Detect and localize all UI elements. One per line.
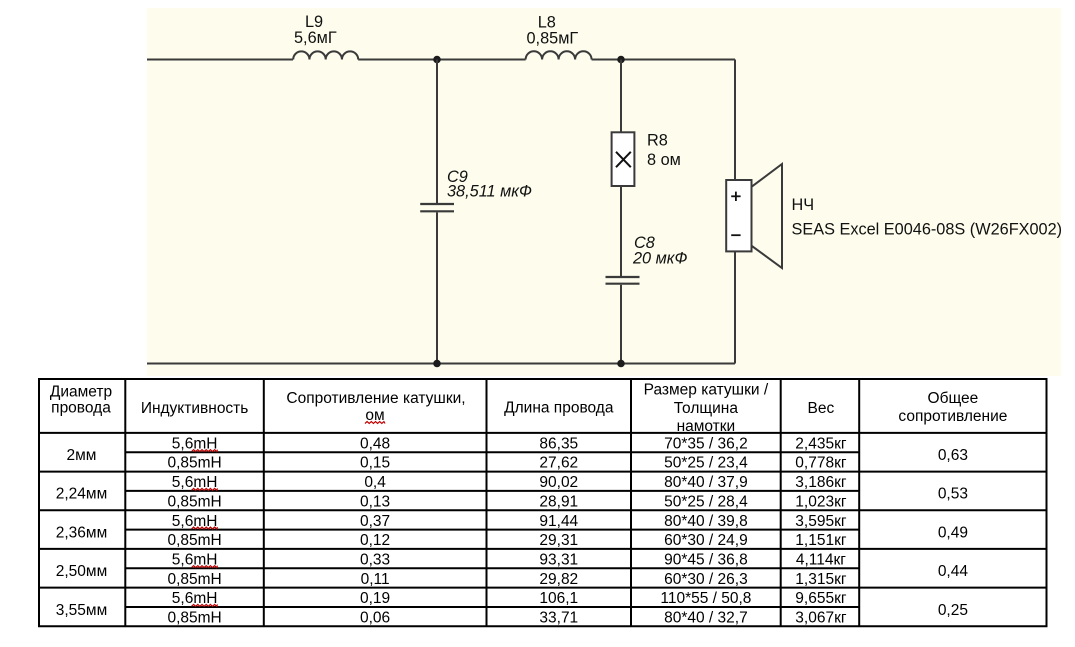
wire: C8 branch lower [620, 285, 622, 364]
svg-text:1,315кг: 1,315кг [795, 571, 847, 588]
svg-text:93,31: 93,31 [539, 551, 578, 568]
svg-text:80*40 / 37,9: 80*40 / 37,9 [664, 474, 748, 491]
svg-text:90,02: 90,02 [539, 474, 578, 491]
svg-text:2,36мм: 2,36мм [56, 524, 107, 541]
svg-text:0,53: 0,53 [938, 486, 968, 503]
svg-text:60*30 / 26,3: 60*30 / 26,3 [664, 571, 748, 588]
wire: C9 branch upper [436, 60, 438, 204]
schematic background sheet [147, 8, 1061, 376]
svg-text:0,85mH: 0,85mH [167, 493, 221, 510]
svg-text:80*40 / 39,8: 80*40 / 39,8 [664, 513, 748, 530]
svg-text:50*25 / 23,4: 50*25 / 23,4 [664, 455, 748, 472]
svg-text:8 ом: 8 ом [647, 151, 681, 169]
svg-text:Толщина: Толщина [674, 400, 739, 417]
svg-text:Длина провода: Длина провода [504, 400, 614, 417]
svg-text:0,48: 0,48 [360, 435, 390, 452]
svg-text:86,35: 86,35 [539, 435, 578, 452]
svg-text:Сопротивление катушки,: Сопротивление катушки, [286, 390, 465, 407]
svg-text:2мм: 2мм [67, 447, 97, 464]
table grid [38, 379, 40, 626]
node: junction top of C9 [433, 56, 441, 64]
svg-text:0,4: 0,4 [364, 474, 386, 491]
wire: bottom return [147, 363, 735, 365]
wire: top between L8 and speaker branch [592, 59, 735, 61]
svg-text:Вес: Вес [808, 400, 835, 417]
svg-text:50*25 / 28,4: 50*25 / 28,4 [664, 493, 748, 510]
svg-text:R8: R8 [647, 131, 668, 149]
svg-text:3,067кг: 3,067кг [795, 610, 847, 627]
svg-text:27,62: 27,62 [539, 455, 578, 472]
svg-text:провода: провода [51, 399, 111, 416]
svg-text:80*40 / 32,7: 80*40 / 32,7 [664, 610, 748, 627]
capacitor C8 [606, 276, 640, 278]
wire: top input segment [147, 59, 293, 61]
svg-text:0,25: 0,25 [938, 602, 968, 619]
capacitor C9 [420, 203, 454, 205]
svg-text:НЧ: НЧ [792, 196, 815, 214]
wire: C9 branch lower [436, 212, 438, 363]
svg-text:0,63: 0,63 [938, 447, 968, 464]
svg-text:0,12: 0,12 [360, 532, 390, 549]
svg-text:4,114кг: 4,114кг [796, 551, 846, 568]
svg-text:106,1: 106,1 [539, 590, 578, 607]
svg-text:Общее: Общее [928, 390, 979, 407]
svg-text:91,44: 91,44 [539, 513, 578, 530]
wire: speaker branch upper [734, 60, 736, 181]
inductor L8 [526, 51, 592, 59]
svg-text:0,13: 0,13 [360, 493, 390, 510]
svg-text:60*30 / 24,9: 60*30 / 24,9 [664, 532, 748, 549]
svg-text:0,49: 0,49 [938, 524, 968, 541]
svg-text:0,11: 0,11 [361, 571, 390, 588]
svg-text:29,31: 29,31 [539, 532, 578, 549]
svg-text:70*35 / 36,2: 70*35 / 36,2 [664, 435, 748, 452]
svg-text:1,151кг: 1,151кг [795, 532, 847, 549]
svg-text:28,91: 28,91 [539, 493, 578, 510]
svg-text:0,85mH: 0,85mH [167, 571, 221, 588]
wire: R8 branch upper [620, 60, 622, 133]
svg-text:намотки: намотки [677, 418, 736, 435]
wire: speaker branch lower [734, 251, 736, 363]
svg-text:0,85mH: 0,85mH [167, 455, 221, 472]
svg-text:0,33: 0,33 [360, 551, 390, 568]
svg-text:110*55 / 50,8: 110*55 / 50,8 [660, 590, 751, 607]
svg-text:Индуктивность: Индуктивность [141, 400, 249, 417]
svg-text:29,82: 29,82 [539, 571, 578, 588]
wire: top between L9 and L8 [358, 59, 525, 61]
svg-text:0,778кг: 0,778кг [795, 455, 847, 472]
svg-text:сопротивление: сопротивление [898, 408, 1007, 425]
svg-text:0,19: 0,19 [360, 590, 390, 607]
svg-text:5,6мГ: 5,6мГ [294, 29, 337, 47]
svg-text:0,37: 0,37 [360, 513, 390, 530]
svg-text:0,15: 0,15 [360, 455, 390, 472]
svg-text:2,24мм: 2,24мм [56, 486, 107, 503]
resistor R8 (fuse body with X) [612, 132, 635, 186]
svg-text:0,85мГ: 0,85мГ [527, 30, 579, 48]
svg-text:0,85mH: 0,85mH [167, 610, 221, 627]
node: junction bottom of C8 [617, 360, 625, 368]
svg-text:2,50мм: 2,50мм [56, 563, 107, 580]
svg-text:Диаметр: Диаметр [50, 383, 112, 400]
svg-text:0,06: 0,06 [360, 610, 390, 627]
svg-text:90*45 / 36,8: 90*45 / 36,8 [664, 551, 748, 568]
svg-text:0,85mH: 0,85mH [167, 532, 221, 549]
svg-text:20 мкФ: 20 мкФ [632, 250, 687, 268]
svg-text:SEAS Excel E0046-08S (W26FX002: SEAS Excel E0046-08S (W26FX002) [792, 221, 1063, 239]
svg-text:3,595кг: 3,595кг [795, 513, 847, 530]
svg-text:33,71: 33,71 [539, 610, 578, 627]
node: junction bottom of C9 [433, 360, 441, 368]
speaker horn cone [752, 164, 783, 268]
inductor L9 [293, 51, 358, 59]
svg-text:2,435кг: 2,435кг [795, 435, 847, 452]
node: junction top of R8 [617, 56, 625, 64]
speaker driver (magnet box with polarity) [726, 180, 751, 251]
svg-text:0,44: 0,44 [938, 563, 969, 580]
svg-text:9,655кг: 9,655кг [795, 590, 847, 607]
svg-text:3,186кг: 3,186кг [795, 474, 847, 491]
svg-text:38,511 мкФ: 38,511 мкФ [447, 182, 532, 200]
wire: between R8 and C8 [620, 186, 622, 276]
svg-text:3,55мм: 3,55мм [56, 602, 107, 619]
svg-text:Размер катушки /: Размер катушки / [644, 382, 769, 399]
svg-text:1,023кг: 1,023кг [795, 493, 847, 510]
